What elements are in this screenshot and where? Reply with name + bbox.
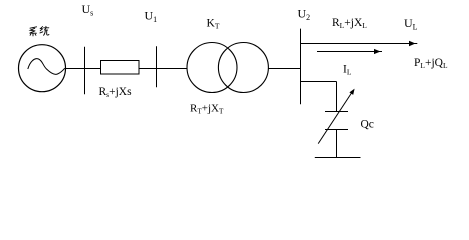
svg-text:Qc: Qc — [361, 118, 374, 130]
svg-text:PL+jQL: PL+jQL — [414, 57, 448, 70]
svg-text:U1: U1 — [145, 9, 158, 25]
svg-text:Us: Us — [82, 2, 94, 18]
svg-text:U2: U2 — [298, 7, 311, 23]
svg-text:RL+jXL: RL+jXL — [332, 17, 367, 30]
svg-text:IL: IL — [343, 64, 352, 77]
svg-text:UL: UL — [404, 16, 418, 32]
svg-text:KT: KT — [207, 17, 220, 30]
svg-text:Rs+jXs: Rs+jXs — [99, 86, 133, 99]
svg-text:RT+jXT: RT+jXT — [190, 103, 224, 116]
